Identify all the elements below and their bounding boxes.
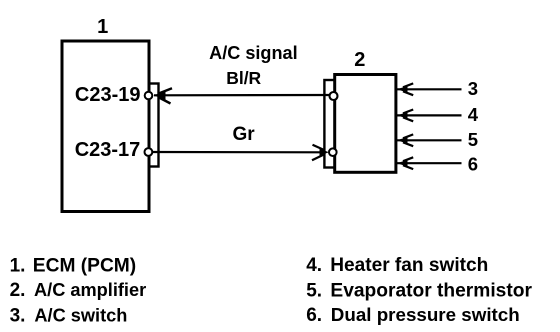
legend item 4 heater fan switch [306,255,488,276]
wire from heater fan switch (3) [397,88,462,90]
amplifier pin circle bottom [329,148,337,156]
svg-text:5.: 5. [306,280,322,301]
svg-text:2.: 2. [10,280,26,301]
legend item 3 A/C switch [10,305,128,326]
svg-text:3.: 3. [10,305,26,326]
svg-text:Dual pressure switch: Dual pressure switch [331,304,520,325]
svg-text:4: 4 [468,104,479,125]
legend item 2 A/C amplifier [10,280,147,301]
svg-text:2: 2 [354,49,365,71]
wire Bl/R (A/C signal) [154,94,329,97]
svg-text:A/C signal: A/C signal [209,43,297,63]
arrowhead wire 6 [397,157,413,169]
pin C23-17 terminal circle [145,148,153,156]
svg-text:5: 5 [468,129,478,150]
A/C amplifier box U2 [335,75,396,173]
svg-text:1: 1 [97,16,108,38]
arrowhead into amplifier pin [312,145,329,161]
legend item 6 dual pressure switch [306,304,520,326]
svg-text:1.: 1. [10,255,26,276]
wire from dual pressure switch (6) [397,162,462,164]
svg-text:4.: 4. [306,255,322,276]
svg-text:Gr: Gr [233,124,256,145]
wire Gr [153,151,326,154]
pin C23-19 terminal circle [145,92,153,100]
arrowhead wire 5 [397,134,413,146]
svg-text:Evaporator thermistor: Evaporator thermistor [330,280,532,301]
wire from evaporator thermistor (5) [397,139,462,141]
svg-text:6.: 6. [306,305,322,326]
arrowhead wire 4 [397,110,413,122]
svg-text:6: 6 [468,153,478,174]
svg-text:Heater fan switch: Heater fan switch [330,255,488,276]
connector strip on box 1 [149,84,159,167]
svg-text:C23-17: C23-17 [75,139,141,161]
amplifier pin circle top [330,92,338,100]
svg-text:C23-19: C23-19 [75,84,141,106]
wire from switch (4) [397,114,462,116]
svg-text:ECM (PCM): ECM (PCM) [33,255,136,276]
svg-text:3: 3 [468,78,478,99]
arrowhead into pin C23-19 [154,88,172,103]
svg-text:A/C switch: A/C switch [34,305,127,325]
connector strip on box 2 [324,80,334,168]
svg-text:Bl/R: Bl/R [226,68,261,88]
legend item 5 evaporator thermistor [306,280,532,301]
legend item 1 ECM (PCM) [10,255,137,276]
svg-text:A/C amplifier: A/C amplifier [34,280,146,300]
arrowhead wire 3 [397,83,413,95]
ECM (PCM) box U1 [62,41,149,212]
